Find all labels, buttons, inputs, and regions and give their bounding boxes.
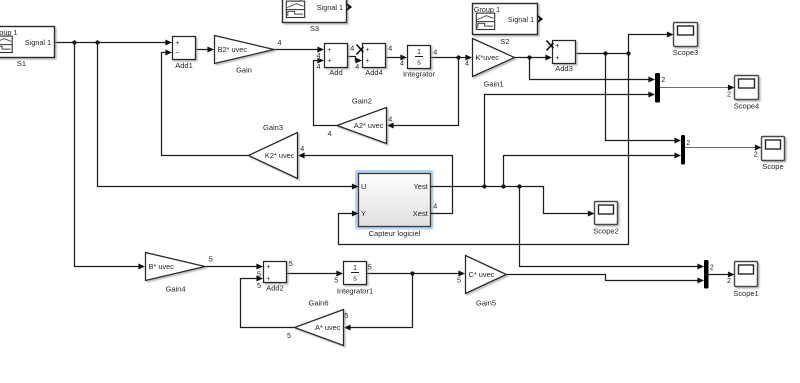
svg-text:4: 4: [317, 51, 321, 60]
svg-text:4: 4: [433, 202, 437, 211]
svg-text:2: 2: [686, 138, 690, 147]
svg-text:Gain: Gain: [236, 66, 252, 75]
wire Gain1 output branch down to Mux input 1: [530, 58, 651, 80]
svg-text:K*uvec: K*uvec: [476, 53, 500, 62]
svg-text:Gain2: Gain2: [352, 96, 372, 105]
sum block Add4: [363, 44, 386, 68]
svg-text:B2* uvec: B2* uvec: [218, 45, 248, 54]
gain block Gain2 (A2* uvec): [337, 108, 387, 144]
svg-text:−: −: [175, 50, 179, 57]
svg-text:Group 1: Group 1: [474, 5, 500, 14]
svg-text:2: 2: [754, 149, 758, 158]
svg-text:4: 4: [388, 115, 392, 124]
mux block (feeds Scope4): [655, 73, 660, 103]
svg-text:K2* uvec: K2* uvec: [265, 151, 295, 160]
svg-text:5: 5: [287, 331, 291, 340]
svg-text:S1: S1: [17, 59, 26, 68]
wire Capteur Yest output to Scope2 input: [431, 187, 590, 214]
sum block Add1: [173, 37, 196, 60]
svg-text:Gain1: Gain1: [483, 79, 503, 88]
wire Capteur Xest output up to Gain3 input: [303, 156, 453, 214]
svg-text:4: 4: [433, 48, 437, 57]
mux block Mux2 (feeds Scope1): [704, 260, 709, 289]
svg-text:U: U: [361, 182, 366, 191]
svg-text:A2* uvec: A2* uvec: [354, 121, 384, 130]
wire Integrator output to Gain1 input: [431, 57, 468, 59]
svg-text:+: +: [175, 40, 179, 47]
integrator block Integrator: [408, 46, 431, 69]
junction dot Yest branch c: [517, 184, 521, 188]
wire Add1 output to Gain input: [196, 49, 210, 51]
svg-text:2: 2: [661, 75, 665, 84]
svg-text:4: 4: [328, 129, 332, 138]
wire S1 branch down to Gain4 input: [75, 43, 141, 267]
wire Yest branch up to Mux input 2: [485, 95, 651, 187]
wire Yest branch down to Mux2 input 1: [520, 187, 700, 267]
junction dot Yest branch a: [482, 184, 486, 188]
junction dot on S1 wire (branch to Capteur U): [95, 40, 99, 44]
junction dot Yest branch b: [501, 184, 505, 188]
svg-text:Gain4: Gain4: [165, 284, 185, 293]
svg-text:4: 4: [400, 58, 404, 67]
wire Add4 output to Integrator input: [386, 57, 403, 59]
svg-text:Add1: Add1: [175, 61, 193, 70]
svg-text:s: s: [353, 273, 357, 282]
scope block Scope: [762, 137, 785, 161]
svg-text:Signal 1: Signal 1: [25, 38, 51, 47]
wire Gain6 output up to Add2 second input: [241, 279, 295, 328]
svg-text:Scope2: Scope2: [593, 226, 618, 235]
svg-text:Scope3: Scope3: [673, 48, 698, 57]
svg-text:5: 5: [257, 281, 261, 290]
gain block Gain1 (K*uvec): [473, 39, 515, 77]
wire Add3 branch down to Mux1 input 1: [606, 54, 677, 141]
wire Gain4 output to Add2 first input: [205, 266, 258, 268]
svg-text:4: 4: [317, 62, 321, 71]
gain block Gain5 (C* uvec): [466, 256, 507, 294]
wire Integrator1 output to Gain5 input: [367, 273, 461, 275]
svg-text:5: 5: [344, 311, 348, 320]
wire Gain1 output to Add3 second input: [515, 57, 548, 59]
svg-text:+: +: [327, 58, 331, 65]
scope block Scope2: [595, 202, 618, 225]
svg-text:S2: S2: [500, 37, 509, 46]
svg-text:5: 5: [209, 255, 213, 264]
junction dot on Gain1 output: [527, 55, 531, 59]
svg-text:5: 5: [334, 275, 338, 284]
signal builder block S3: [283, 0, 347, 23]
signal builder block S1: [0, 27, 55, 58]
gain block Gain4 (B* uvec): [146, 253, 206, 281]
svg-text:Add2: Add2: [266, 283, 284, 292]
wire Mux1 output to Scope input: [685, 147, 757, 149]
wire Add output to Add4 second input: [348, 57, 358, 61]
svg-text:+: +: [327, 47, 331, 54]
svg-text:2: 2: [727, 89, 731, 98]
svg-text:Gain3: Gain3: [263, 123, 283, 132]
svg-text:+: +: [365, 47, 369, 54]
junction dot Add3 output b: [626, 51, 630, 55]
svg-text:B* uvec: B* uvec: [149, 262, 175, 271]
svg-text:C* uvec: C* uvec: [469, 270, 495, 279]
wire Mux output to Scope4 input: [660, 87, 730, 89]
svg-text:Capteur logiciel: Capteur logiciel: [369, 229, 421, 238]
svg-text:Integrator: Integrator: [403, 69, 436, 78]
svg-text:Scope1: Scope1: [733, 289, 758, 298]
wire S1 branch down to Capteur logiciel U input: [98, 43, 354, 187]
svg-text:+: +: [555, 43, 559, 50]
svg-text:Add3: Add3: [555, 64, 573, 73]
svg-text:Xest: Xest: [413, 209, 429, 218]
svg-text:A* uvec: A* uvec: [315, 323, 341, 332]
svg-text:4: 4: [300, 144, 304, 153]
wire Add3 output trunk: [576, 53, 629, 55]
junction dot on Integrator output: [456, 55, 460, 59]
wire Integrator output branch down to Gain2 input: [392, 58, 459, 126]
junction dot Add3 output a: [603, 51, 607, 55]
sum block Add: [325, 44, 348, 68]
wire Integrator1 output branch down to Gain6 input: [349, 274, 413, 328]
svg-text:+: +: [555, 55, 559, 62]
wire Yest branch up to Mux1 input 2: [504, 156, 677, 187]
signal builder block S2: [473, 4, 538, 35]
wire S1 output to Add1 plus input: [55, 42, 167, 44]
svg-text:4: 4: [355, 62, 359, 71]
gain block Gain6 (A* uvec): [295, 310, 344, 346]
wire Gain3 output up to Add1 minus input: [162, 53, 249, 156]
svg-text:+: +: [266, 264, 270, 271]
svg-text:+: +: [365, 58, 369, 65]
svg-text:2: 2: [727, 276, 731, 285]
svg-text:Integrator1: Integrator1: [337, 287, 373, 296]
mux block Mux1 (feeds Scope): [681, 135, 685, 165]
wire Gain output to Add first input: [274, 49, 319, 51]
wire Add2 output to Integrator1 input: [287, 273, 339, 275]
svg-text:Gain6: Gain6: [308, 298, 328, 307]
svg-text:s: s: [417, 57, 421, 66]
wire Mux2 output to Scope1 input: [709, 274, 730, 276]
gain block Gain (B2* uvec): [215, 36, 275, 64]
svg-text:4: 4: [388, 44, 392, 53]
sum block Add3: [553, 41, 576, 64]
svg-text:Scope: Scope: [762, 162, 783, 171]
svg-text:Signal 1: Signal 1: [508, 15, 534, 24]
integrator block Integrator1: [344, 262, 367, 285]
svg-text:5: 5: [257, 269, 261, 278]
svg-text:5: 5: [457, 276, 461, 285]
gain block Gain3 (K2* uvec): [249, 133, 298, 179]
svg-text:4: 4: [465, 59, 469, 68]
svg-text:Gain5: Gain5: [476, 298, 496, 307]
subsystem Capteur logiciel selection halo: [355, 170, 434, 230]
svg-text:4: 4: [350, 44, 354, 53]
svg-text:Add4: Add4: [365, 68, 383, 77]
sum block Add2: [264, 262, 287, 283]
svg-text:5: 5: [289, 259, 293, 268]
svg-text:Y: Y: [361, 209, 366, 218]
svg-text:4: 4: [278, 38, 282, 47]
junction dot on S1 wire (branch to Gain4): [72, 40, 76, 44]
svg-text:5: 5: [368, 262, 372, 271]
svg-text:Yest: Yest: [413, 182, 428, 191]
svg-text:1: 1: [417, 47, 421, 56]
svg-text:2: 2: [710, 262, 714, 271]
wire Add3 branch up to Scope3 input: [629, 35, 669, 54]
svg-text:Scope4: Scope4: [734, 101, 759, 110]
subsystem Capteur logiciel body: [359, 174, 431, 227]
scope block Scope4: [735, 76, 759, 100]
svg-text:S3: S3: [310, 24, 319, 33]
svg-text:1: 1: [353, 263, 357, 272]
junction dot on Integrator1 output: [410, 271, 414, 275]
svg-text:+: +: [266, 276, 270, 283]
svg-text:Signal 1: Signal 1: [317, 3, 343, 12]
wire Gain5 output to Mux2 input 2: [506, 275, 699, 281]
wire Gain2 output up to Add second input: [314, 61, 338, 126]
svg-text:Add: Add: [329, 68, 342, 77]
wire Add3 feedback around to Capteur Y input: [339, 54, 629, 245]
scope block Scope3: [674, 23, 698, 47]
scope block Scope1: [735, 262, 758, 287]
